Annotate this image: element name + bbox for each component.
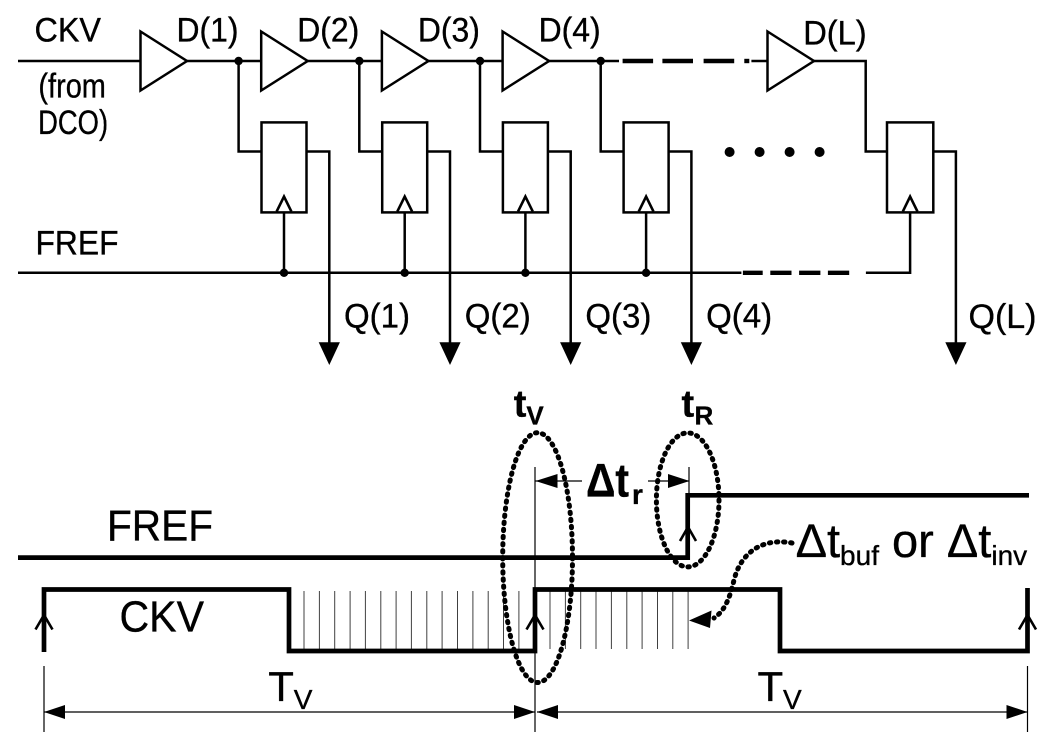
svg-text:D(L): D(L) bbox=[803, 15, 867, 53]
svg-text:FREF: FREF bbox=[36, 225, 119, 263]
svg-text:Q(2): Q(2) bbox=[465, 297, 531, 335]
svg-text:V: V bbox=[526, 401, 544, 431]
svg-text:T: T bbox=[758, 663, 784, 710]
svg-text:D(1): D(1) bbox=[177, 12, 239, 50]
svg-text:CKV: CKV bbox=[120, 593, 205, 642]
svg-text:DCO): DCO) bbox=[38, 104, 108, 142]
svg-text:Δtbuf or Δtinv: Δtbuf or Δtinv bbox=[796, 514, 1028, 571]
svg-text:D(3): D(3) bbox=[418, 12, 480, 50]
svg-text:D(4): D(4) bbox=[539, 12, 601, 50]
svg-text:FREF: FREF bbox=[107, 502, 213, 551]
svg-text:V: V bbox=[294, 684, 313, 715]
svg-text:Q(L): Q(L) bbox=[969, 298, 1037, 336]
svg-text:D(2): D(2) bbox=[297, 12, 359, 50]
svg-text:T: T bbox=[268, 663, 294, 710]
svg-text:CKV: CKV bbox=[35, 12, 102, 50]
svg-text:Q(1): Q(1) bbox=[344, 297, 410, 335]
svg-text:t: t bbox=[514, 383, 527, 425]
svg-text:Q(4): Q(4) bbox=[706, 297, 772, 335]
svg-text:R: R bbox=[695, 401, 714, 431]
svg-text:Q(3): Q(3) bbox=[585, 297, 651, 335]
svg-text:t: t bbox=[682, 383, 695, 425]
svg-text:r: r bbox=[632, 479, 643, 510]
svg-text:V: V bbox=[783, 684, 802, 715]
svg-text:(from: (from bbox=[38, 68, 106, 106]
svg-text:Δt: Δt bbox=[586, 453, 629, 506]
